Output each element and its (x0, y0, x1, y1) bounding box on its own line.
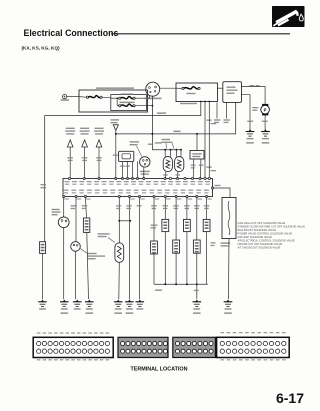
relay stub wire 2 (216, 102, 218, 118)
solenoid valve 3 lower wire (175, 253, 177, 284)
ECU right pin (211, 187, 213, 189)
wire color labels under ECU bottom edge (65, 198, 69, 199)
wire capsule to ground (87, 232, 89, 299)
main ECU left drop: resistor (40, 242, 46, 254)
cable box label (211, 242, 216, 243)
ECU internal pin labels top row (65, 181, 70, 182)
injector resistor feed line (152, 149, 181, 151)
terminal block C (gray) (173, 337, 216, 357)
speed sensor circle (71, 242, 81, 252)
svg-text:CRUISE CUT OFF SOLENOID VALVE: CRUISE CUT OFF SOLENOID VALVE (238, 242, 283, 246)
ECU control unit box (63, 179, 213, 197)
inner fuse block (111, 95, 147, 111)
fuel pump relay (223, 82, 242, 103)
wire coil to ECU (115, 130, 117, 178)
terminal block D (white) (217, 337, 290, 357)
solenoid capsule component (83, 218, 89, 232)
solenoid valve 5 (193, 240, 200, 253)
wire resistor to ground (42, 253, 44, 299)
ignition coil connector (111, 119, 120, 120)
sensor box leads (122, 161, 124, 178)
noise condenser box (190, 151, 204, 160)
solenoid valve 1 (151, 241, 158, 254)
svg-text:AIR LEAK SOLENOID VALVE: AIR LEAK SOLENOID VALVE (238, 235, 273, 239)
oxygen sensor wire (118, 197, 120, 243)
wire ECU to speed sensor (75, 197, 77, 242)
ground G (fuel pump) (264, 129, 267, 131)
extra labels above valves (151, 225, 158, 226)
header rule (111, 33, 290, 35)
wire ECU pin down 2 (129, 197, 131, 300)
bus wire 2 (main relay feed) (116, 102, 236, 133)
wire ECU pin down 3 (139, 197, 141, 300)
solenoid valve 1 lower wire (153, 254, 155, 284)
wire fuel pump to ground (264, 115, 266, 130)
solenoid common bus (154, 283, 208, 285)
under-hood relay box (79, 90, 148, 112)
solenoid valve 3 wire (175, 197, 177, 241)
fuel pump motor P (262, 104, 268, 107)
ignition feed vertical (151, 96, 153, 150)
solenoid valve 2 (162, 219, 169, 231)
injector 1 (163, 157, 172, 172)
svg-text:IDLE BOOST SOLENOID VALVE: IDLE BOOST SOLENOID VALVE (238, 228, 277, 232)
solenoid valve 2 wire (164, 197, 166, 220)
ignition switch (146, 82, 160, 96)
solenoid valve 5 wire (196, 197, 198, 241)
fuse box bottom terminal dots (200, 101, 202, 103)
svg-text:P: P (264, 107, 267, 112)
connector triangle 1 (67, 140, 73, 147)
solenoid valve 6 (203, 219, 210, 231)
battery (62, 94, 66, 98)
terminal block B (gray) (118, 337, 168, 357)
oxygen sensor capsule (115, 243, 124, 263)
fusible link fuse A (86, 96, 88, 98)
oxygen sensor label (98, 233, 110, 234)
block D pin numbers bottom (221, 359, 225, 360)
ground G203 (88, 300, 91, 302)
ground G201 (63, 300, 66, 302)
wire battery to relay box (67, 96, 79, 98)
tie line between wires (119, 220, 130, 222)
svg-text:POWER VALVE CONTROL SOLENOID V: POWER VALVE CONTROL SOLENOID VALVE (238, 232, 293, 236)
svg-text:A/T SHO BOOST SOLENOID VALVE: A/T SHO BOOST SOLENOID VALVE (238, 245, 281, 249)
left drop wire from bus1 (44, 116, 46, 242)
solenoid valve 4 wire (186, 197, 188, 220)
svg-text:CAM HIGH CUT OFF SOLENOID VALV: CAM HIGH CUT OFF SOLENOID VALVE (238, 221, 286, 225)
svg-text:STANDBY SLOW MIXTURE CUT OFF S: STANDBY SLOW MIXTURE CUT OFF SOLENOID VA… (238, 225, 306, 229)
svg-text:Electrical Connections: Electrical Connections (24, 28, 119, 38)
wire relay to ground (242, 95, 251, 131)
fuse No.2 (121, 93, 133, 95)
condenser leads (192, 159, 195, 179)
speed sensor label leader (80, 249, 87, 254)
ground G1 (41, 300, 44, 302)
svg-text:6-17: 6-17 (276, 390, 304, 406)
ECU top pin terminals (68, 177, 70, 179)
block A pin numbers bottom (37, 359, 41, 360)
solenoid valve 4 (184, 219, 191, 231)
wire relay to switch (148, 95, 150, 98)
wire ECU to clutch switch (63, 197, 65, 217)
idle control sensor box (119, 151, 134, 161)
fuse box drop wire A (204, 102, 206, 179)
fuse No.4 (182, 87, 184, 89)
clutch switch circle (58, 217, 69, 228)
injector leads (164, 150, 166, 157)
ground G202 (76, 300, 79, 302)
injector label (162, 139, 171, 140)
wire fuse box to fuel pump relay (218, 87, 223, 89)
svg-text:TERMINAL LOCATION: TERMINAL LOCATION (131, 367, 188, 373)
solenoid valve 3 (173, 240, 180, 253)
injector 2 (175, 157, 184, 172)
vacuum switch label (130, 141, 140, 142)
relay stub wire 1 (226, 102, 228, 118)
terminal block A (white) (33, 337, 113, 357)
fuse box drop wire B (208, 102, 210, 179)
ECU output wire to solenoid cable (213, 188, 231, 198)
fuse No.1 (120, 102, 135, 104)
block D pin numbers top (221, 332, 225, 333)
svg-text:(KX, KS, KG, KQ): (KX, KS, KG, KQ) (22, 45, 60, 50)
fuel section icon (black box, white nozzle) (272, 6, 305, 27)
wire ECU to solenoid capsule (85, 197, 86, 219)
ground G5 (128, 300, 131, 302)
wire cable box to ground (228, 239, 231, 300)
solenoid valve 2 lower wire (164, 232, 166, 285)
under-dash fuse box (176, 83, 218, 102)
wire speed sensor to ground (75, 251, 77, 299)
vacuum switch (140, 157, 150, 167)
wire switch to fuse box (160, 87, 176, 89)
bus wire 1 (battery feed) (45, 102, 201, 116)
ground G (relay) (249, 129, 252, 131)
ground G6 (138, 300, 141, 302)
solenoid valve 6 wire (206, 197, 208, 220)
ground G8 (227, 300, 230, 302)
ECU internal pin labels bottom row (64, 190, 69, 191)
svg-text:AIR ELECTRICAL CONTROL SOLENOI: AIR ELECTRICAL CONTROL SOLENOID VALVE (238, 238, 295, 242)
solenoid valve 4 lower wire (186, 232, 188, 285)
ground G4 (117, 300, 120, 302)
solenoid valve 1 wire (153, 197, 155, 242)
solenoid cable box (222, 198, 236, 239)
solenoid valve 6 lower wire (206, 232, 208, 285)
block A pin numbers top (37, 332, 41, 333)
wire relay to fuel pump (242, 87, 266, 104)
wire vacuum switch to ECU (143, 167, 145, 178)
solenoid valve 5 lower wire (196, 253, 198, 284)
wire O2 to ground (118, 262, 121, 299)
wire solenoid bus to ground (196, 284, 198, 299)
ground G7 (195, 300, 198, 302)
ECU bottom pin terminals (63, 195, 65, 197)
wire clutch switch to ground (63, 228, 65, 300)
